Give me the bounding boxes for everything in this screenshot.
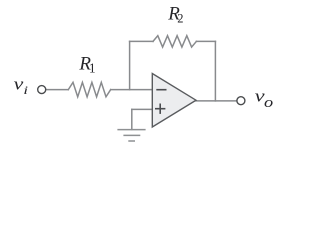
wire input terminal to R1: [46, 89, 69, 91]
wire feedback right vertical: [214, 41, 216, 101]
wire R1 to op-amp inverting input: [111, 89, 153, 91]
wire op-amp output to terminal: [196, 100, 237, 102]
wire non-inverting input: [132, 108, 153, 110]
op-amp U1: [152, 74, 196, 128]
svg-text:2: 2: [177, 11, 183, 25]
wire feedback left vertical: [129, 41, 131, 89]
input terminal circle: [38, 86, 46, 94]
wire feedback top right: [196, 40, 215, 42]
wire to ground: [131, 109, 133, 129]
svg-text:o: o: [264, 93, 273, 110]
wire feedback top left: [130, 40, 153, 42]
output terminal circle: [237, 97, 245, 105]
op-amp plus pin label: [155, 104, 165, 114]
ground: [117, 130, 145, 141]
op-amp minus pin label: [156, 89, 166, 91]
svg-text:v: v: [14, 76, 24, 94]
svg-text:1: 1: [89, 60, 96, 75]
resistor R1: [68, 82, 110, 96]
resistor R2: [153, 36, 196, 47]
svg-text:i: i: [23, 84, 28, 97]
